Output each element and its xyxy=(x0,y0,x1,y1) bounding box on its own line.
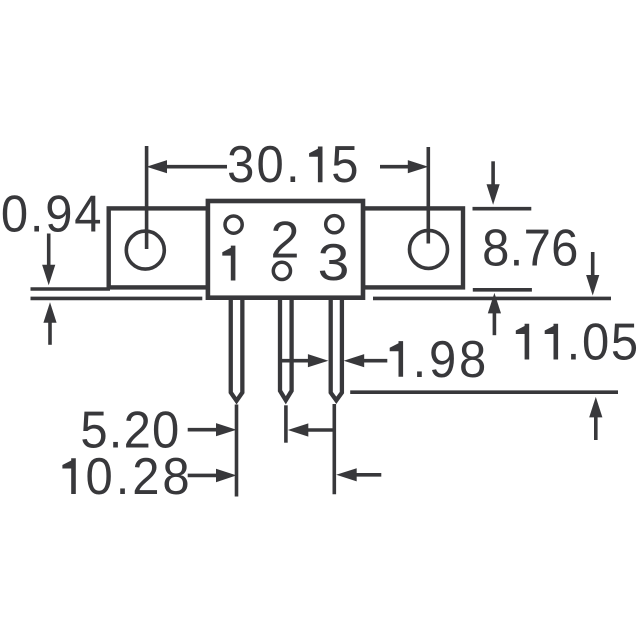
down arrow shaft xyxy=(47,234,51,269)
seating plane line right xyxy=(373,297,611,301)
pin 1 index circle xyxy=(225,216,242,233)
svg-text:6: 6 xyxy=(551,218,578,277)
package body xyxy=(208,201,363,298)
svg-text:9: 9 xyxy=(45,184,72,243)
arrowhead pointing left at pin2 ext xyxy=(288,423,309,436)
svg-text:.: . xyxy=(116,447,130,506)
arrowhead right (points right) xyxy=(408,160,429,173)
pin 2 index circle xyxy=(273,262,290,279)
lead tip line xyxy=(350,390,618,394)
extension line right (hole 2 center) xyxy=(426,147,430,244)
svg-text:9: 9 xyxy=(429,329,456,388)
right shaft xyxy=(306,428,335,432)
pin1 tip extension line xyxy=(235,405,239,497)
up arrow shaft xyxy=(493,311,497,336)
label 1.98 xyxy=(413,329,487,388)
right mounting hole xyxy=(410,230,448,268)
pin 3 index circle xyxy=(326,216,343,233)
right mounting tab xyxy=(363,208,463,287)
label 11.05 xyxy=(567,312,638,371)
dimension 10.28 xyxy=(188,404,382,494)
svg-text:.: . xyxy=(413,329,427,388)
svg-text:.: . xyxy=(286,135,300,194)
right shaft xyxy=(362,359,387,363)
svg-text:2: 2 xyxy=(270,212,299,270)
dimension 30.15 xyxy=(147,146,429,249)
dimension 11.05 xyxy=(350,252,618,440)
svg-text:7: 7 xyxy=(524,218,551,277)
bottom extension line xyxy=(473,288,532,292)
pin 1 lead xyxy=(229,296,245,401)
arrowhead left (points left) xyxy=(147,160,168,173)
left shaft xyxy=(281,359,310,363)
arrowhead down xyxy=(42,265,55,286)
svg-text:2: 2 xyxy=(132,447,159,506)
svg-text:3: 3 xyxy=(227,135,254,194)
pin 3 lead xyxy=(331,296,342,400)
dimension 0.94 xyxy=(31,234,203,345)
svg-text:4: 4 xyxy=(74,184,101,243)
body seating line ext xyxy=(31,297,203,301)
arrowhead up xyxy=(488,293,501,314)
label 0.94 xyxy=(1,184,102,243)
svg-text:.: . xyxy=(567,312,581,371)
svg-text:8: 8 xyxy=(459,329,486,388)
down arrow shaft xyxy=(491,161,495,187)
pin2 tip extension line xyxy=(284,405,288,442)
down arrow shaft xyxy=(591,252,595,278)
dim line left shaft xyxy=(165,165,227,169)
dimension 8.76 xyxy=(473,161,532,335)
arrowhead pointing left at pin3 ext xyxy=(336,468,357,481)
left shaft xyxy=(188,474,217,478)
dimension 1.98 xyxy=(281,359,387,363)
label 8.76 xyxy=(482,218,578,277)
svg-text:.: . xyxy=(30,184,44,243)
pin 2 lead xyxy=(280,296,292,400)
extension line left (hole 1 center) xyxy=(145,146,149,249)
label 10.28 xyxy=(86,447,190,506)
svg-text:8: 8 xyxy=(482,218,509,277)
pin 1 label xyxy=(222,246,235,281)
tab seating line ext xyxy=(31,287,111,291)
left mounting tab xyxy=(109,208,208,287)
up arrow shaft xyxy=(48,320,52,345)
svg-text:0: 0 xyxy=(582,312,609,371)
dimension 5.20 xyxy=(188,405,335,497)
svg-text:.: . xyxy=(510,218,524,277)
dim line right shaft xyxy=(380,165,409,169)
arrowhead down xyxy=(487,184,500,205)
arrowhead pointing right at pin1 ext xyxy=(216,469,237,482)
left mounting hole xyxy=(126,231,164,269)
arrowhead up xyxy=(589,397,602,418)
up arrow shaft xyxy=(594,415,598,441)
right shaft xyxy=(355,473,381,477)
arrowhead pointing left at pin3 right edge xyxy=(344,354,365,367)
svg-text:0: 0 xyxy=(257,135,284,194)
svg-text:5: 5 xyxy=(611,312,638,371)
svg-text:3: 3 xyxy=(318,234,350,292)
svg-text:0: 0 xyxy=(1,184,28,243)
arrowhead pointing right at pin1 ext xyxy=(216,423,237,436)
arrowhead down xyxy=(586,275,599,296)
svg-text:8: 8 xyxy=(162,447,189,506)
arrowhead up xyxy=(43,302,56,323)
left shaft xyxy=(188,428,217,432)
svg-text:0: 0 xyxy=(86,447,113,506)
pin3 tip extension line xyxy=(332,404,336,494)
arrowhead pointing right at pin3 left edge xyxy=(308,354,329,367)
top extension line xyxy=(473,207,532,211)
label 30.15 xyxy=(227,135,358,194)
svg-text:5: 5 xyxy=(331,135,358,194)
label 5.20 xyxy=(80,400,179,459)
